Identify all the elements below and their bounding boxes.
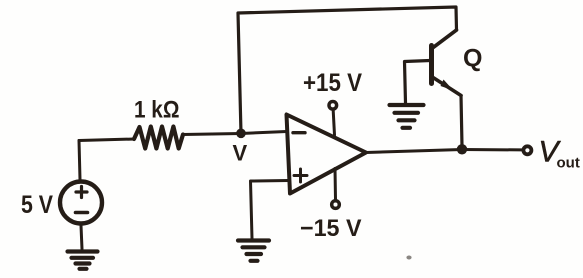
wire resistor to node V xyxy=(183,134,241,135)
ground (transistor base) xyxy=(390,105,424,128)
wire input left segment xyxy=(79,139,134,141)
resistor R1 xyxy=(134,127,183,149)
wire feedback (node V up, over, down to collector) xyxy=(238,7,457,134)
node V junction xyxy=(236,129,246,139)
op-amp negative supply terminal xyxy=(334,169,338,200)
transistor Q1 base bar xyxy=(429,46,434,84)
wire base xyxy=(405,61,431,104)
wire source to ground xyxy=(81,226,82,250)
op-amp inverting input marker (−) xyxy=(293,131,305,134)
op-amp U1 xyxy=(287,115,367,194)
svg-text:1 kΩ: 1 kΩ xyxy=(134,97,180,124)
op-amp non-inverting input marker (+) xyxy=(294,169,307,182)
wire non-inverting input xyxy=(251,181,289,239)
voltage source V1 (5 V) xyxy=(60,182,102,224)
transistor Q1 collector xyxy=(433,30,457,48)
terminal Vout xyxy=(523,146,531,154)
ground (below source) xyxy=(68,252,98,269)
wire source riser xyxy=(79,141,80,180)
svg-text:+15 V: +15 V xyxy=(303,69,362,97)
node output junction xyxy=(457,144,467,154)
wire node V to inverting input xyxy=(241,132,287,134)
svg-text:−15 V: −15 V xyxy=(300,215,362,242)
wire output to Vout terminal xyxy=(462,148,522,151)
wire emitter to output node xyxy=(461,96,462,147)
svg-text:out: out xyxy=(557,155,580,172)
svg-text:V: V xyxy=(233,141,248,166)
wire op-amp output xyxy=(366,150,462,153)
op-amp positive supply terminal xyxy=(333,111,334,136)
svg-text:5 V: 5 V xyxy=(21,191,53,219)
ground (non-inverting input) xyxy=(238,241,269,261)
transistor Q1 emitter with arrow xyxy=(432,77,462,96)
svg-text:Q: Q xyxy=(463,45,482,73)
